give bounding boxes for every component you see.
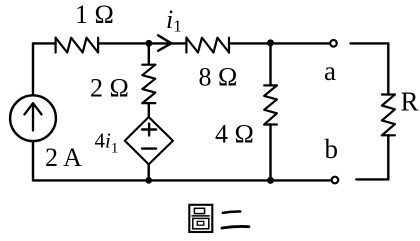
- svg-text:4 Ω: 4 Ω: [215, 120, 254, 149]
- wire R2 to node B and terminal a: [229, 42, 329, 44]
- resistor R5 R body (vertical): [382, 95, 395, 136]
- wire right vertical upper (to R5): [387, 43, 389, 94]
- current source I1 arrow: [24, 103, 41, 130]
- svg-text:8 Ω: 8 Ω: [199, 63, 238, 92]
- svg-text:b: b: [325, 134, 339, 164]
- caption glyph er (two): [222, 211, 249, 228]
- svg-text:2 Ω: 2 Ω: [90, 74, 129, 103]
- svg-text:2 A: 2 A: [45, 143, 82, 172]
- wire right vertical lower: [387, 135, 389, 179]
- caption glyph tu (figure): [189, 205, 212, 232]
- wire left vertical lower (source to bottom wire): [32, 141, 34, 180]
- wire terminal a to right corner: [351, 42, 389, 44]
- node D junction dot (bottom of R4): [267, 177, 274, 184]
- wire bottom (left corner to terminal b): [33, 179, 330, 181]
- wire node A to R2 (with i1 arrow): [149, 42, 186, 44]
- current source I1 circle: [10, 95, 56, 141]
- node B junction dot: [267, 39, 274, 46]
- dependent source plus sign: [142, 124, 156, 136]
- wire top-left lead to R1: [33, 42, 56, 44]
- wire right corner to terminal b: [356, 178, 388, 180]
- wire R4 to bottom wire: [269, 125, 271, 181]
- dependent source minus sign: [142, 147, 156, 149]
- dependent source U1 diamond: [125, 117, 173, 164]
- resistor R2 8ohm body: [186, 38, 229, 53]
- wire U1 bottom to bottom wire: [147, 164, 149, 180]
- resistor R1 1ohm body: [56, 38, 99, 53]
- node C junction dot (bottom of U1): [145, 177, 152, 184]
- svg-text:i1: i1: [166, 5, 182, 36]
- wire left vertical upper (source to top wire): [32, 43, 34, 95]
- resistor R4 4ohm body (vertical): [264, 85, 277, 124]
- wire R3 to dependent source U1 top: [148, 103, 150, 117]
- current arrow i1 head: [158, 35, 171, 51]
- svg-text:a: a: [324, 56, 336, 86]
- wire node A down to R3: [148, 43, 150, 64]
- terminal b open circle: [332, 177, 339, 184]
- resistor R3 2ohm body (vertical): [142, 65, 155, 103]
- svg-text:4i1: 4i1: [95, 129, 119, 157]
- svg-text:R: R: [401, 87, 419, 117]
- wire R1 to node A: [98, 42, 149, 44]
- terminal a open circle: [330, 40, 337, 47]
- wire node B down to R4: [269, 43, 271, 85]
- svg-text:1 Ω: 1 Ω: [75, 0, 114, 29]
- node A junction dot: [146, 40, 153, 47]
